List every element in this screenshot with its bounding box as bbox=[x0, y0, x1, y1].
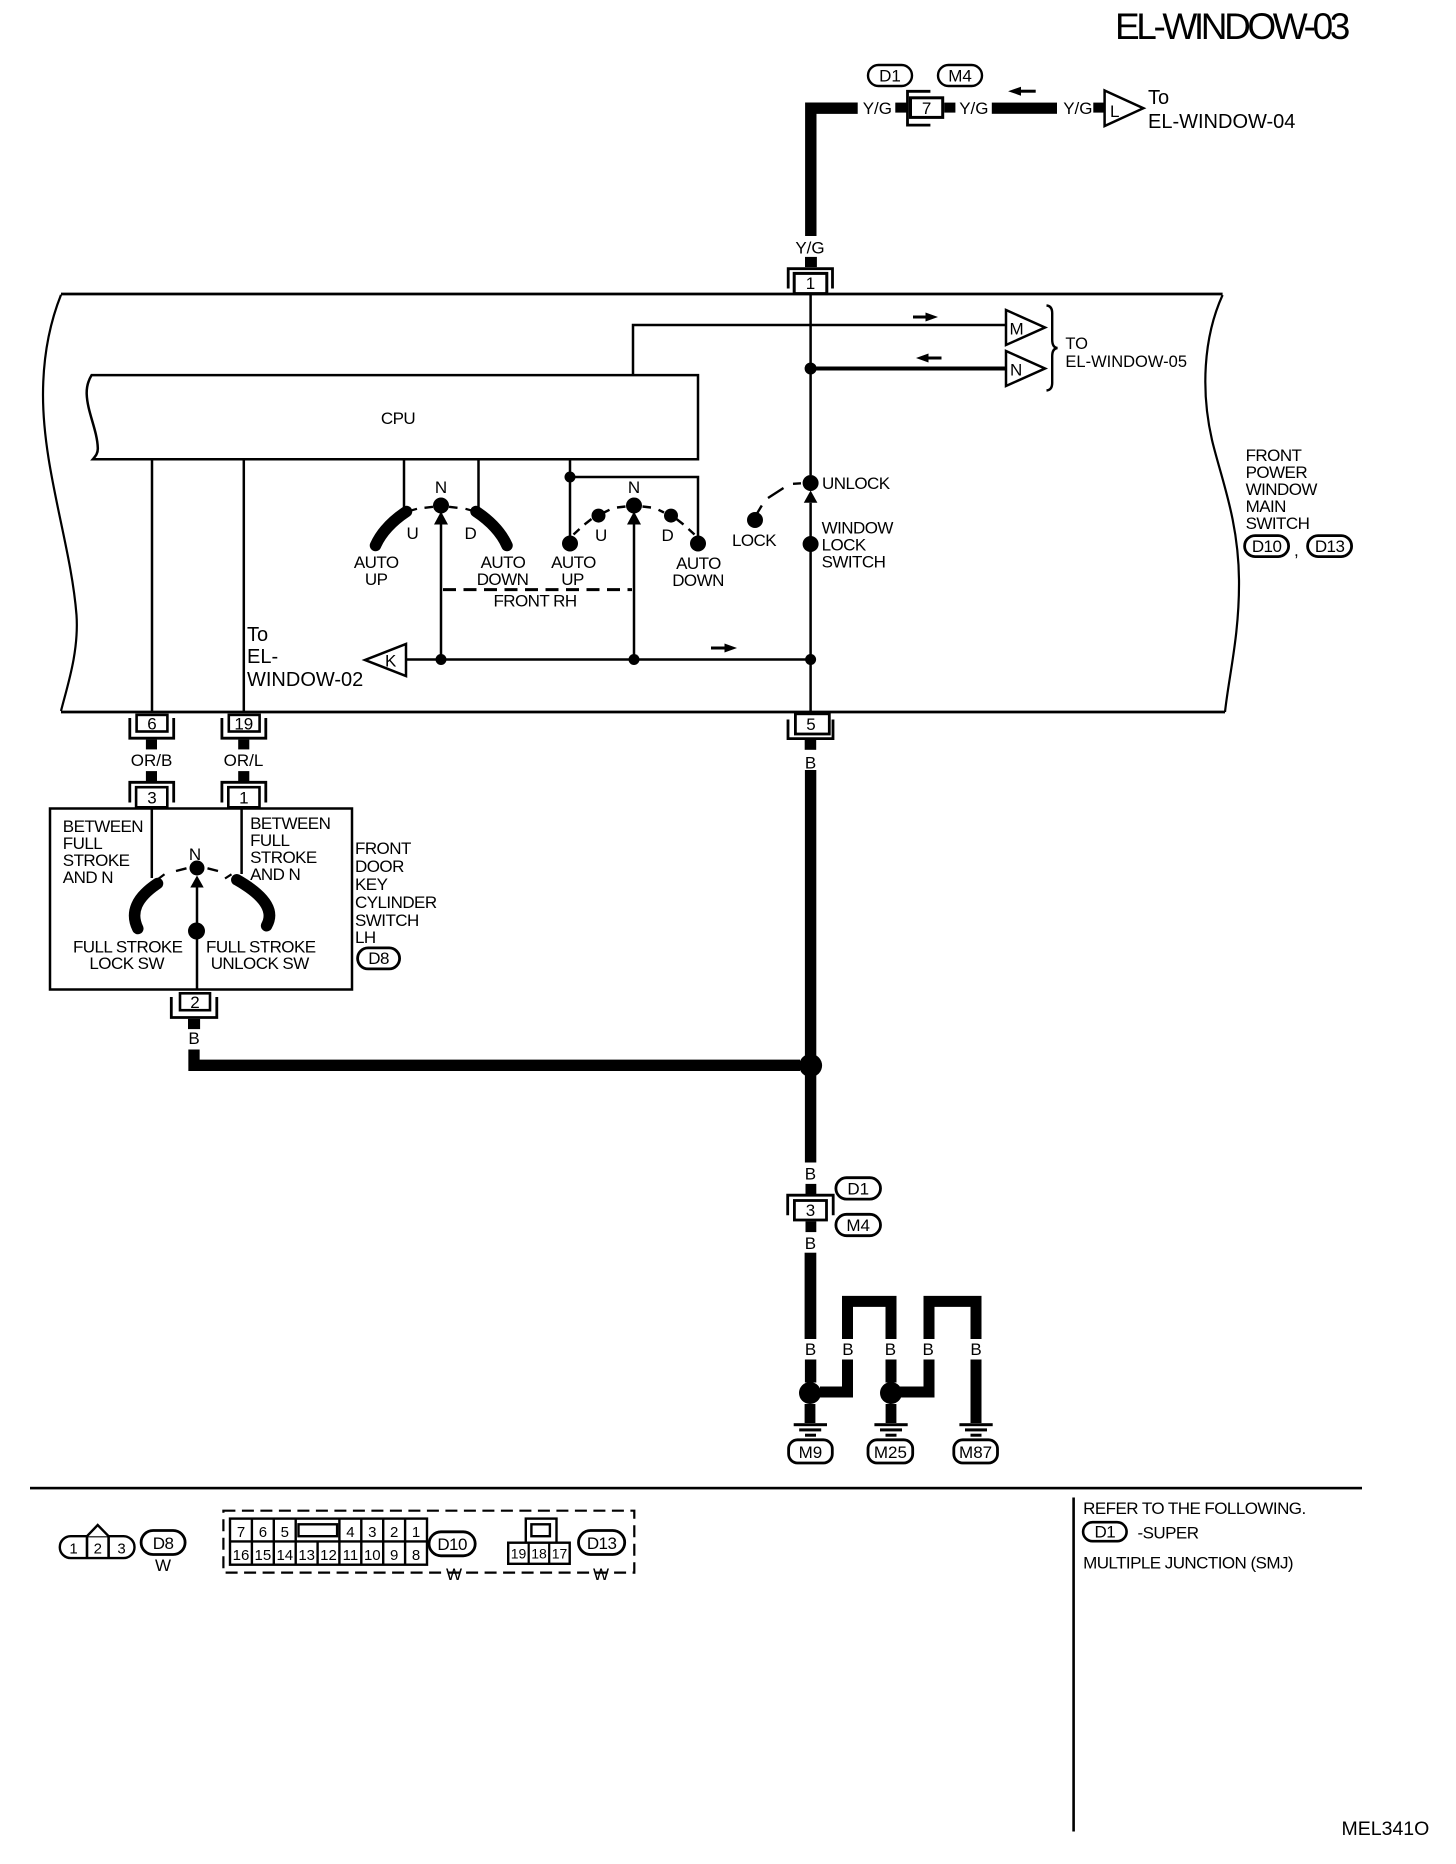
wire Y/G thick elbow top bbox=[811, 108, 858, 236]
svg-text:5: 5 bbox=[806, 715, 815, 734]
svg-text:EL-WINDOW-04: EL-WINDOW-04 bbox=[1148, 111, 1295, 133]
svg-text:UP: UP bbox=[561, 570, 584, 589]
wire middle switch wiper down bbox=[633, 525, 636, 660]
svg-text:12: 12 bbox=[320, 1547, 337, 1564]
svg-text:3: 3 bbox=[806, 1201, 815, 1220]
arrow left on N line bbox=[916, 354, 942, 363]
svg-text:19: 19 bbox=[511, 1546, 527, 1562]
connector 2 (key cylinder pin 2) bbox=[171, 993, 217, 1029]
ground symbol M9 bbox=[794, 1423, 827, 1437]
svg-text:B: B bbox=[805, 1165, 816, 1184]
connector oval D1 (mid) bbox=[836, 1178, 881, 1199]
connector 3 (key cylinder pin 3) bbox=[130, 771, 174, 807]
wire CPU to left switch U contact bbox=[403, 460, 406, 510]
svg-text:D8: D8 bbox=[368, 949, 389, 968]
svg-text:6: 6 bbox=[147, 715, 156, 734]
wire stub before triangle L bbox=[1093, 103, 1104, 113]
left switch AUTO UP thick arc bbox=[376, 512, 407, 546]
svg-text:B: B bbox=[805, 1340, 816, 1359]
svg-text:W: W bbox=[593, 1565, 609, 1584]
svg-text:D13: D13 bbox=[587, 1534, 617, 1553]
svg-text:KEY: KEY bbox=[355, 875, 388, 894]
svg-text:10: 10 bbox=[364, 1547, 381, 1564]
key switch wiper arrow bbox=[190, 876, 203, 888]
wire stub above mid connector 3 bbox=[806, 1184, 817, 1195]
wire branch 4 down to ground 3 bbox=[971, 1360, 982, 1424]
ground branch U loop 1 bbox=[848, 1301, 892, 1339]
svg-text:1: 1 bbox=[239, 789, 248, 808]
svg-text:EL-: EL- bbox=[247, 646, 278, 668]
svg-text:,: , bbox=[1294, 541, 1298, 560]
wavy right edge of main switch box bbox=[1205, 295, 1239, 712]
svg-text:FRONT RH: FRONT RH bbox=[493, 592, 576, 611]
wire Y/G from connector 1 down inside box bbox=[809, 294, 812, 475]
connector 5 (main switch pin 5) bbox=[788, 714, 833, 750]
svg-text:CPU: CPU bbox=[381, 409, 415, 428]
connector oval D10 (legend) bbox=[429, 1532, 475, 1556]
svg-text:N: N bbox=[435, 478, 447, 497]
svg-text:CYLINDER: CYLINDER bbox=[355, 893, 437, 912]
svg-text:DOWN: DOWN bbox=[477, 570, 529, 589]
window lock switch LOCK contact bbox=[747, 512, 763, 528]
svg-text:SWITCH: SWITCH bbox=[822, 553, 886, 572]
svg-text:LOCK: LOCK bbox=[732, 531, 777, 550]
svg-text:W: W bbox=[155, 1556, 171, 1575]
labels B row bbox=[805, 1340, 982, 1359]
svg-text:WINDOW-02: WINDOW-02 bbox=[247, 669, 363, 691]
svg-text:2: 2 bbox=[190, 993, 199, 1012]
dashed wiper segments bbox=[574, 510, 695, 535]
svg-text:Y/G: Y/G bbox=[795, 239, 824, 258]
wire Y/G thick horizontal bbox=[992, 103, 1057, 114]
separator line bbox=[30, 1487, 1362, 1490]
wire left switch wiper down bbox=[440, 525, 443, 660]
legend connector D13 pinout bbox=[508, 1519, 570, 1564]
connector oval M4 (mid) bbox=[836, 1214, 881, 1235]
svg-text:EL-WINDOW-03: EL-WINDOW-03 bbox=[1115, 6, 1349, 47]
svg-text:REFER TO THE FOLLOWING.: REFER TO THE FOLLOWING. bbox=[1083, 1499, 1306, 1518]
wire CPU to connector 6 bbox=[151, 460, 154, 712]
svg-text:B: B bbox=[842, 1340, 853, 1359]
svg-text:1: 1 bbox=[69, 1541, 77, 1558]
full stroke lock thick arc bbox=[135, 884, 158, 929]
dashed wiper lock switch bbox=[757, 483, 801, 513]
junction node ground 1 bbox=[799, 1382, 821, 1404]
svg-text:U: U bbox=[595, 526, 607, 545]
connector 1 (key cylinder pin 1) bbox=[222, 771, 266, 807]
triangle connector K bbox=[365, 644, 406, 676]
CPU box bbox=[87, 375, 698, 459]
arrow right on M line bbox=[913, 313, 938, 322]
svg-text:17: 17 bbox=[552, 1546, 568, 1562]
wire branch 3 elbow into junction 2 bbox=[900, 1360, 929, 1393]
left switch AUTO DOWN thick arc bbox=[476, 512, 507, 546]
svg-text:D13: D13 bbox=[1315, 537, 1345, 556]
junction node B wire bbox=[799, 1054, 822, 1077]
svg-text:D: D bbox=[662, 526, 674, 545]
label FRONT DOOR KEY CYLINDER SWITCH LH bbox=[355, 839, 437, 947]
svg-text:N: N bbox=[1010, 361, 1022, 380]
svg-text:4: 4 bbox=[346, 1524, 354, 1541]
svg-text:11: 11 bbox=[343, 1547, 359, 1564]
svg-text:To: To bbox=[1148, 87, 1169, 109]
wire stub above connector 1 bbox=[805, 257, 817, 267]
wire CPU to connector 19 bbox=[243, 460, 246, 712]
svg-text:FRONT: FRONT bbox=[355, 839, 411, 858]
wire branch 2 down to junction 2 bbox=[886, 1360, 897, 1383]
svg-text:M87: M87 bbox=[959, 1443, 992, 1462]
svg-text:D1: D1 bbox=[847, 1180, 869, 1199]
triangle connector N bbox=[1006, 351, 1045, 386]
wire B thick elbow to junction bbox=[194, 1050, 800, 1066]
svg-text:W: W bbox=[446, 1565, 462, 1584]
svg-text:M25: M25 bbox=[874, 1443, 907, 1462]
wire CPU to middle switch bbox=[569, 460, 572, 538]
svg-text:16: 16 bbox=[233, 1547, 250, 1564]
connector oval D13 (legend) bbox=[579, 1531, 625, 1555]
connector 19 (main switch pin 19) bbox=[222, 715, 266, 750]
svg-text:13: 13 bbox=[298, 1547, 315, 1564]
wire branch 1 elbow into junction bbox=[820, 1360, 848, 1393]
svg-text:2: 2 bbox=[390, 1524, 398, 1541]
wire B thick to grounds bbox=[805, 1253, 817, 1339]
svg-text:1: 1 bbox=[412, 1524, 420, 1541]
svg-text:7: 7 bbox=[922, 99, 931, 118]
connector 1 (main switch pin 1) bbox=[788, 269, 832, 294]
label BETWEEN FULL STROKE AND N (right) bbox=[250, 814, 330, 884]
front power window main switch box outline bbox=[61, 294, 1225, 712]
svg-text:M: M bbox=[1010, 320, 1024, 339]
svg-text:OR/B: OR/B bbox=[131, 751, 173, 770]
svg-text:3: 3 bbox=[368, 1524, 376, 1541]
svg-text:B: B bbox=[885, 1340, 896, 1359]
wavy left edge of main switch box bbox=[43, 295, 77, 711]
svg-text:2: 2 bbox=[94, 1541, 102, 1558]
svg-text:18: 18 bbox=[531, 1546, 547, 1562]
connector 7 (SMJ pass-through) bbox=[908, 91, 943, 125]
svg-text:B: B bbox=[923, 1340, 934, 1359]
junction node bbox=[436, 654, 447, 665]
connector oval D13 (label) bbox=[1308, 536, 1352, 557]
svg-text:To: To bbox=[247, 624, 268, 646]
connector oval M87 bbox=[954, 1440, 998, 1463]
svg-text:AND N: AND N bbox=[250, 865, 300, 884]
svg-text:-SUPER: -SUPER bbox=[1138, 1524, 1199, 1543]
wire to N triangle bbox=[811, 367, 1006, 371]
connector 6 (main switch pin 6) bbox=[130, 715, 174, 750]
connector oval D1 bbox=[868, 65, 912, 86]
middle switch N contact bbox=[626, 498, 642, 514]
svg-text:D1: D1 bbox=[1094, 1523, 1115, 1542]
label FRONT POWER WINDOW MAIN SWITCH bbox=[1246, 446, 1318, 533]
svg-text:D8: D8 bbox=[153, 1534, 174, 1553]
junction node bbox=[565, 472, 576, 483]
svg-text:Y/G: Y/G bbox=[959, 99, 988, 118]
window lock switch UNLOCK contact bbox=[803, 475, 819, 491]
legend connector D10 pinout grid bbox=[230, 1519, 427, 1565]
wire stub right of connector 7 bbox=[944, 103, 955, 113]
svg-text:M9: M9 bbox=[799, 1443, 823, 1462]
wire across to D side bbox=[570, 477, 698, 538]
svg-text:6: 6 bbox=[259, 1524, 267, 1541]
svg-text:MULTIPLE JUNCTION (SMJ): MULTIPLE JUNCTION (SMJ) bbox=[1083, 1554, 1293, 1573]
svg-text:15: 15 bbox=[255, 1547, 272, 1564]
svg-text:B: B bbox=[805, 1234, 816, 1253]
svg-text:AND N: AND N bbox=[63, 868, 113, 887]
svg-text:5: 5 bbox=[281, 1524, 289, 1541]
svg-text:DOOR: DOOR bbox=[355, 857, 404, 876]
brace to EL-WINDOW-05 bbox=[1047, 306, 1058, 391]
wire B thick main vertical bbox=[805, 770, 816, 1163]
svg-text:UP: UP bbox=[365, 570, 388, 589]
middle switch wiper arrow bbox=[627, 512, 641, 525]
svg-text:Y/G: Y/G bbox=[863, 99, 892, 118]
svg-text:3: 3 bbox=[117, 1541, 125, 1558]
svg-text:8: 8 bbox=[412, 1547, 420, 1564]
wire stub to ground 1 bbox=[805, 1404, 816, 1423]
svg-text:Y/G: Y/G bbox=[1063, 99, 1092, 118]
connector oval M9 bbox=[789, 1440, 833, 1463]
svg-text:9: 9 bbox=[390, 1547, 398, 1564]
svg-text:UNLOCK: UNLOCK bbox=[822, 474, 891, 493]
svg-text:L: L bbox=[1110, 102, 1119, 121]
full stroke unlock thick arc bbox=[237, 880, 270, 926]
key switch N contact bbox=[190, 861, 205, 876]
legend dashed box bbox=[223, 1511, 634, 1573]
window lock switch wiper arrow bbox=[804, 491, 818, 503]
junction node ground 2 bbox=[880, 1382, 902, 1404]
svg-text:1: 1 bbox=[806, 274, 815, 293]
wire B main to junction dot bbox=[805, 1360, 816, 1383]
svg-text:TO: TO bbox=[1065, 335, 1088, 353]
wire lock switch down bbox=[809, 503, 812, 712]
middle switch AUTO UP end contact bbox=[562, 536, 578, 552]
svg-text:19: 19 bbox=[234, 715, 253, 734]
svg-text:B: B bbox=[970, 1340, 981, 1359]
left switch N contact bbox=[433, 498, 449, 514]
svg-text:N: N bbox=[628, 478, 640, 497]
dashed FRONT RH divider bbox=[443, 588, 632, 591]
junction node bbox=[805, 654, 816, 665]
window lock switch common contact bbox=[803, 536, 819, 552]
ground symbol M25 bbox=[874, 1423, 907, 1437]
svg-text:K: K bbox=[385, 652, 397, 671]
svg-text:B: B bbox=[805, 754, 816, 773]
connector 3 (SMJ mid-wire) bbox=[788, 1195, 834, 1232]
connector oval M4 bbox=[938, 65, 982, 86]
svg-text:UNLOCK SW: UNLOCK SW bbox=[211, 954, 310, 973]
svg-text:14: 14 bbox=[276, 1547, 293, 1564]
wire stub to ground 2 bbox=[886, 1404, 897, 1423]
wire wiper down bbox=[196, 888, 199, 990]
wire K line bbox=[406, 658, 811, 661]
ground branch U loop 2 bbox=[929, 1301, 976, 1339]
svg-text:U: U bbox=[407, 524, 419, 543]
connector oval D8 (legend) bbox=[141, 1531, 185, 1555]
key switch middle contact bbox=[188, 923, 205, 940]
legend connector D8 pinout bbox=[60, 1525, 135, 1558]
label BETWEEN FULL STROKE AND N (left) bbox=[63, 817, 143, 887]
connector oval D10 (label) bbox=[1245, 536, 1289, 557]
svg-text:7: 7 bbox=[237, 1524, 245, 1541]
svg-text:M4: M4 bbox=[846, 1216, 870, 1235]
wire riser to M triangle bbox=[633, 325, 1006, 374]
junction node bbox=[629, 654, 640, 665]
wire pin 1 to unlock arc bbox=[240, 809, 243, 875]
triangle connector L bbox=[1105, 91, 1144, 127]
svg-text:B: B bbox=[188, 1029, 199, 1048]
svg-text:D: D bbox=[465, 524, 477, 543]
connector oval M25 bbox=[868, 1440, 913, 1463]
arrow left above wire bbox=[1008, 87, 1036, 96]
middle switch U contact bbox=[592, 509, 606, 523]
svg-text:D10: D10 bbox=[1252, 537, 1282, 556]
triangle connector M bbox=[1006, 310, 1045, 345]
svg-text:OR/L: OR/L bbox=[224, 751, 264, 770]
legend right divider bbox=[1072, 1498, 1075, 1832]
svg-text:EL-WINDOW-05: EL-WINDOW-05 bbox=[1065, 353, 1187, 371]
svg-text:M4: M4 bbox=[948, 67, 972, 86]
svg-text:D1: D1 bbox=[879, 67, 901, 86]
svg-text:SWITCH: SWITCH bbox=[1246, 514, 1310, 533]
svg-text:LH: LH bbox=[355, 928, 376, 947]
connector oval D8 (label) bbox=[358, 948, 400, 969]
svg-text:3: 3 bbox=[147, 789, 156, 808]
junction node on Y/G wire bbox=[805, 363, 817, 375]
svg-text:D10: D10 bbox=[437, 1535, 467, 1554]
wire stub into connector 7 bbox=[895, 103, 908, 113]
left switch wiper arrow bbox=[434, 512, 448, 525]
svg-text:MEL341O: MEL341O bbox=[1342, 1818, 1430, 1840]
ground symbol M87 bbox=[959, 1423, 992, 1437]
wire pin 3 to lock arc bbox=[151, 809, 154, 879]
middle switch AUTO DOWN end contact bbox=[690, 536, 706, 552]
wire CPU to left switch D contact bbox=[477, 460, 480, 510]
svg-text:DOWN: DOWN bbox=[672, 571, 724, 590]
middle switch D contact bbox=[664, 509, 678, 523]
front door key cylinder switch box bbox=[50, 809, 352, 990]
arrow right on K line bbox=[711, 644, 737, 653]
svg-text:LOCK SW: LOCK SW bbox=[89, 954, 164, 973]
connector oval D1 (legend) bbox=[1083, 1522, 1127, 1541]
